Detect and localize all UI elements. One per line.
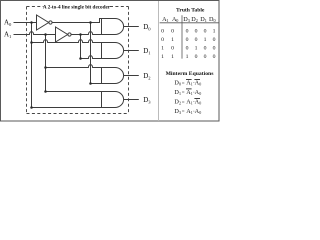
svg-text:0: 0: [199, 101, 201, 106]
outer frame: [1, 1, 220, 122]
svg-text:=: =: [182, 110, 185, 115]
svg-text:=: =: [182, 101, 185, 106]
node A1 tap: [44, 33, 47, 36]
wire notA1: inverter2 output into gate1 bottom, hop over notA0 bus: [71, 32, 102, 35]
AND gate G2 (D1): [102, 43, 124, 59]
bus A1 vertical: [45, 35, 47, 92]
svg-text:0: 0: [195, 29, 198, 35]
node A1 gate3 tap: [44, 66, 47, 69]
AND gate G1 (D0): [102, 19, 124, 35]
node notA1 gate2 corner: [79, 57, 82, 60]
svg-text:1: 1: [161, 54, 164, 60]
svg-text:0: 0: [195, 37, 198, 43]
svg-text:1: 1: [204, 37, 207, 43]
svg-text:0: 0: [204, 54, 207, 60]
node notA1 tap: [79, 33, 82, 36]
bus notA0 vertical: [90, 23, 92, 84]
svg-text:0: 0: [204, 29, 207, 35]
svg-text:0: 0: [204, 46, 207, 52]
svg-text:1: 1: [213, 29, 216, 35]
wire A0 input: [14, 22, 37, 24]
output wire D0: [123, 26, 138, 28]
node notA0 gate3 corner: [89, 82, 92, 85]
truth table data rows: [161, 29, 216, 61]
svg-text:3: 3: [188, 18, 190, 23]
dashed enclosure box of decoder: [27, 7, 129, 114]
bus A0 vertical: [31, 23, 33, 108]
svg-text:A 2-to-4 line single bit decod: A 2-to-4 line single bit decoder: [43, 4, 111, 10]
svg-text:0: 0: [213, 54, 216, 60]
node A0 gate2 tap: [30, 41, 33, 44]
node A0 tap: [30, 21, 33, 24]
svg-text:0: 0: [186, 29, 189, 35]
node A1 gate4 corner: [44, 90, 47, 93]
svg-text:1: 1: [195, 46, 198, 52]
wire A1 to gate4 top: [46, 91, 102, 93]
svg-text:2: 2: [179, 101, 181, 106]
equation D3: [174, 108, 201, 115]
svg-text:1: 1: [171, 54, 174, 60]
svg-text:0: 0: [199, 91, 201, 96]
inverter U2 for A1: [56, 27, 72, 42]
wire notA0: inverter1 output, riser into gate1 top: [52, 19, 102, 23]
svg-text:Truth Table: Truth Table: [176, 8, 205, 14]
separator line between circuit and tables: [158, 1, 160, 121]
svg-text:1: 1: [186, 54, 189, 60]
equation D1: [174, 89, 201, 96]
node notA0 tap: [89, 21, 92, 24]
wire notA1 to gate2 bottom, hop over notA0 bus: [81, 56, 102, 59]
svg-text:0: 0: [179, 82, 181, 87]
svg-text:Minterm Equations: Minterm Equations: [166, 71, 215, 77]
svg-text:0: 0: [161, 29, 164, 35]
svg-text:1: 1: [179, 91, 181, 96]
svg-text:1: 1: [205, 18, 207, 23]
equation D0: [174, 80, 201, 87]
node A0 gate4 corner: [30, 106, 33, 109]
svg-text:3: 3: [179, 110, 181, 115]
svg-text:0: 0: [171, 46, 174, 52]
svg-text:=: =: [182, 91, 185, 96]
inverter U1 for A0: [37, 15, 53, 30]
truth table column divider: [181, 15, 183, 58]
truth table header rule: [160, 22, 219, 24]
svg-text:0: 0: [199, 110, 201, 115]
svg-text:0: 0: [214, 18, 216, 23]
svg-text:0: 0: [213, 46, 216, 52]
svg-text:0: 0: [195, 54, 198, 60]
wire notA0 to gate3 bottom: [91, 83, 102, 85]
svg-text:0: 0: [186, 46, 189, 52]
svg-text:0: 0: [171, 29, 174, 35]
svg-text:0: 0: [176, 18, 178, 23]
truth table header row: [162, 16, 215, 23]
svg-text:0: 0: [186, 37, 189, 43]
junction dots: [30, 21, 92, 109]
equation D2: [174, 99, 201, 106]
output wire D1: [123, 50, 138, 52]
svg-text:0: 0: [199, 82, 201, 87]
wire A1 input with hop over A0 bus: [14, 32, 56, 35]
svg-text:2: 2: [196, 18, 198, 23]
svg-text:1: 1: [166, 18, 168, 23]
svg-text:1: 1: [161, 46, 164, 52]
output wire D3: [123, 99, 138, 101]
wire A0 to gate2 top, hops over A1, notA1, notA0 buses: [32, 40, 102, 43]
wire A1 to gate3 top, hop over notA0 bus: [46, 65, 102, 68]
svg-text:0: 0: [213, 37, 216, 43]
svg-text:0: 0: [161, 37, 164, 43]
bus notA1 vertical: [80, 35, 82, 59]
wire A0 to gate4 bottom: [32, 107, 102, 109]
AND gate G4 (D3): [102, 92, 124, 108]
AND gate G3 (D2): [102, 68, 124, 84]
output wire D2: [123, 75, 138, 77]
svg-text:=: =: [182, 82, 185, 87]
svg-text:1: 1: [171, 37, 174, 43]
